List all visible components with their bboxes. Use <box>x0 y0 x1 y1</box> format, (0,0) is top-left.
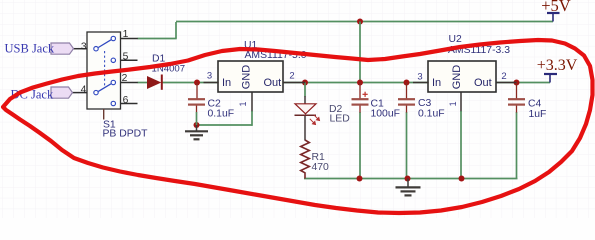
capacitor C1 plates <box>352 98 369 106</box>
wire pin2 to D1 anode <box>138 82 148 84</box>
U2 Out text <box>474 77 492 89</box>
wire riser switch pin1 to top rail <box>138 22 177 39</box>
pin 6 label <box>123 95 129 106</box>
capacitor C1 leads <box>359 83 361 113</box>
svg-text:C3: C3 <box>418 98 432 109</box>
led D2 triangle <box>295 104 316 114</box>
svg-text:5: 5 <box>123 52 129 63</box>
switch pole A throw1 contact <box>111 36 115 40</box>
U1 In pin <box>204 82 219 84</box>
diode D1 triangle <box>147 76 161 89</box>
port DC Jack shape <box>51 87 73 98</box>
node U1 out / LED junction <box>302 80 308 86</box>
pin 2 label <box>122 73 128 84</box>
pin 5 stub <box>121 59 138 61</box>
port DC Jack label <box>11 87 54 101</box>
wire D1 cathode to U1 In <box>162 82 219 84</box>
svg-text:0.1uF: 0.1uF <box>208 108 235 119</box>
svg-text:2: 2 <box>501 71 506 82</box>
U2 designator <box>449 34 463 45</box>
svg-text:PB DPDT: PB DPDT <box>103 129 149 140</box>
pin 1 stub <box>121 38 138 40</box>
svg-text:2: 2 <box>122 73 128 84</box>
svg-text:1: 1 <box>238 101 248 106</box>
node C1 bottom junction <box>357 176 363 182</box>
pin 1 label <box>123 29 129 40</box>
C1 designator <box>371 98 385 109</box>
wire U2 GND pin down <box>460 92 462 179</box>
U1 Out text <box>264 77 282 89</box>
switch bottom stub <box>103 109 105 120</box>
op U2 body <box>428 61 496 92</box>
switch S1 body <box>87 32 121 109</box>
port USB Jack label <box>5 41 55 55</box>
red annotation loop <box>3 40 593 213</box>
svg-text:Out: Out <box>264 77 282 89</box>
node U2 GND bottom junction <box>459 176 465 182</box>
U1 pin3 label <box>207 71 212 82</box>
svg-text:6: 6 <box>123 95 129 106</box>
wire U1 Out rail to U2 In <box>283 82 428 84</box>
capacitor C4 leads <box>516 83 518 113</box>
C3 designator <box>418 98 432 109</box>
svg-text:In: In <box>222 77 231 89</box>
svg-text:+5V: +5V <box>541 0 571 15</box>
svg-text:3: 3 <box>417 72 422 83</box>
svg-text:1uF: 1uF <box>529 109 547 120</box>
capacitor C2 plates <box>188 98 205 106</box>
svg-text:LED: LED <box>330 114 350 125</box>
capacitor C2 leads <box>196 83 199 126</box>
svg-text:+3.3V: +3.3V <box>537 57 578 74</box>
switch pole B common contact <box>94 90 98 94</box>
svg-text:2: 2 <box>289 71 294 82</box>
svg-text:3: 3 <box>81 42 87 53</box>
power flag +5V <box>541 0 571 21</box>
U2 pin2 label <box>501 71 506 82</box>
svg-text:In: In <box>432 77 441 89</box>
node D1/C2/U1 junction <box>194 80 200 86</box>
C1 plus sign <box>363 92 368 97</box>
svg-text:4: 4 <box>81 84 87 95</box>
wire C3 branch lower <box>406 112 408 179</box>
switch pole B throw2 contact <box>111 80 115 84</box>
node C3 bottom / ground junction <box>405 176 411 182</box>
S1 value PB DPDT <box>103 129 149 140</box>
pin 3 label <box>81 42 87 53</box>
svg-text:Out: Out <box>474 77 492 89</box>
resistor R1 zigzag <box>301 140 310 179</box>
U2 Out pin dark <box>496 82 517 84</box>
svg-text:100uF: 100uF <box>371 108 400 119</box>
C4 designator <box>528 98 542 109</box>
node U2 out / C4 junction <box>514 80 520 86</box>
svg-text:GND: GND <box>451 65 463 90</box>
U2 GND pin number <box>448 101 458 106</box>
D2 value LED <box>330 114 350 125</box>
wire LED/R1 branch upper <box>304 83 306 97</box>
capacitor C3 plates <box>398 98 415 106</box>
wire bottom ground rail <box>304 178 518 180</box>
U2 pin3 label <box>417 72 422 83</box>
pin 4 stub <box>73 92 88 94</box>
C4 value 1uF <box>529 109 547 120</box>
R1 designator <box>312 152 326 163</box>
U2 In pin <box>413 82 429 84</box>
wire top +5V rail <box>176 21 553 23</box>
pin 3 stub <box>73 48 87 50</box>
D1 designator <box>152 54 166 65</box>
svg-text:C4: C4 <box>528 98 542 109</box>
port USB Jack shape <box>51 43 74 54</box>
capacitor C4 plates <box>508 98 525 106</box>
led D2 leads <box>304 96 306 141</box>
U1 pin2 label <box>289 71 294 82</box>
wire U1 GND to ground L <box>197 92 253 126</box>
diode D1 cathode bar <box>161 75 163 90</box>
U1 GND pin number <box>238 101 248 106</box>
C1 value 100uF <box>371 108 400 119</box>
D1 value 1N4007 <box>152 64 186 75</box>
wire C1 branch lower <box>359 112 361 179</box>
node top-rail / C1 riser junction <box>357 19 363 25</box>
U2 In text <box>432 77 441 89</box>
svg-text:3: 3 <box>207 71 212 82</box>
node C2 bottom ground junction <box>194 122 200 128</box>
wire riser top rail to main rail at C1 <box>359 22 361 83</box>
U1 designator <box>244 40 258 51</box>
switch pole A blade <box>98 40 111 48</box>
switch pole B blade <box>98 84 111 92</box>
ground under bottom rail <box>396 179 421 196</box>
pin 6 stub <box>121 103 138 105</box>
node C1 top junction <box>357 80 363 86</box>
ground under C2 <box>185 125 208 139</box>
svg-text:1: 1 <box>123 29 129 40</box>
svg-text:USB Jack: USB Jack <box>5 41 55 55</box>
switch pole A throw5 contact <box>111 58 115 62</box>
switch pole B throw6 contact <box>111 101 115 105</box>
U1 Out pin <box>283 82 305 84</box>
pin 5 label <box>123 52 129 63</box>
U1 In text <box>222 77 231 89</box>
U1 GND text <box>241 65 253 90</box>
svg-text:0.1uF: 0.1uF <box>418 109 445 120</box>
svg-text:470: 470 <box>312 162 330 173</box>
svg-text:U2: U2 <box>449 34 463 45</box>
U1 value AMS1117-5.0 <box>245 50 307 61</box>
C2 designator <box>208 98 222 109</box>
pin 4 label <box>81 84 87 95</box>
wire C4 branch lower <box>516 112 518 179</box>
pin 2 stub <box>121 82 138 84</box>
D2 designator <box>329 104 343 115</box>
svg-text:GND: GND <box>241 65 253 90</box>
C3 value <box>418 109 445 120</box>
switch pole A common contact <box>94 47 98 51</box>
switch linkage dashed <box>104 51 106 87</box>
svg-text:1: 1 <box>448 101 458 106</box>
led D2 arrows <box>310 115 320 125</box>
U2 GND text <box>451 65 463 90</box>
S1 designator <box>103 119 116 130</box>
wire U2 Out to +3.3V <box>496 82 550 84</box>
op U1 body <box>218 61 283 92</box>
capacitor C3 leads <box>406 83 408 113</box>
power flag +3.3V <box>537 57 578 82</box>
node C3 top junction <box>404 80 410 86</box>
R1 value 470 <box>312 162 330 173</box>
C2 value <box>208 108 235 119</box>
U2 value AMS1117-3.3 <box>448 45 510 56</box>
led D2 cathode bar <box>295 114 317 116</box>
